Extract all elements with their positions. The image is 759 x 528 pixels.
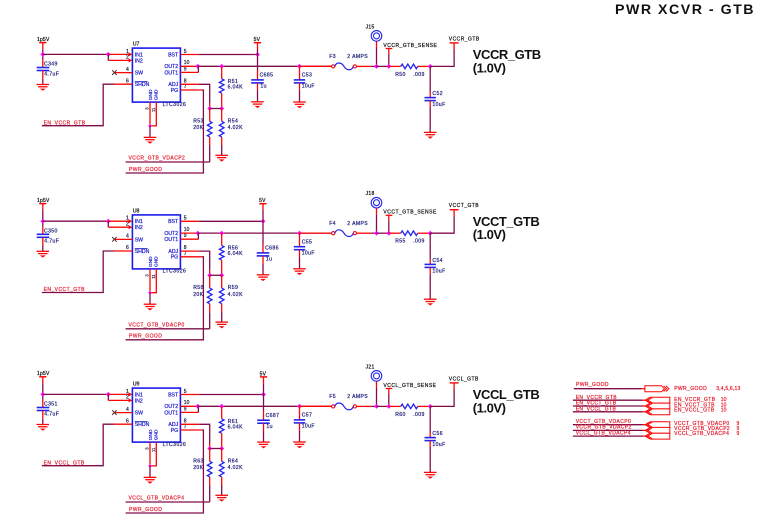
svg-text:LTC3026: LTC3026	[163, 269, 187, 275]
svg-text:C686: C686	[265, 246, 279, 252]
svg-text:GND: GND	[148, 89, 154, 100]
svg-text:F5: F5	[329, 394, 336, 400]
svg-text:9: 9	[184, 66, 187, 72]
svg-text:7: 7	[184, 84, 187, 90]
svg-text:C685: C685	[260, 73, 274, 79]
svg-text:C349: C349	[44, 62, 58, 68]
svg-text:6: 6	[126, 78, 129, 84]
svg-text:PWR_GOOD: PWR_GOOD	[129, 507, 162, 513]
svg-text:10: 10	[184, 227, 190, 233]
svg-text:(1.0V): (1.0V)	[473, 400, 506, 415]
svg-text:VCCL_GTB: VCCL_GTB	[449, 376, 479, 382]
svg-text:C54: C54	[432, 258, 443, 264]
svg-text:(1.0V): (1.0V)	[473, 60, 506, 75]
svg-text:VCCT_GTB: VCCT_GTB	[449, 203, 479, 209]
svg-text:4.7uF: 4.7uF	[44, 72, 59, 78]
svg-text:SHDN: SHDN	[135, 249, 150, 255]
svg-text:2: 2	[126, 55, 129, 61]
svg-text:2 AMPS: 2 AMPS	[347, 394, 368, 400]
svg-text:11: 11	[151, 274, 156, 279]
svg-text:VCCL_GTB_VDACP4: VCCL_GTB_VDACP4	[129, 496, 185, 502]
svg-text:4: 4	[126, 67, 129, 73]
svg-text:C687: C687	[266, 413, 280, 419]
svg-text:U9: U9	[133, 382, 140, 388]
svg-text:OUT2: OUT2	[164, 64, 178, 70]
svg-text:PWR_GOOD: PWR_GOOD	[576, 382, 609, 388]
svg-text:SW: SW	[135, 71, 143, 77]
svg-text:10: 10	[184, 400, 190, 406]
svg-text:OUT1: OUT1	[164, 237, 178, 243]
svg-text:2: 2	[126, 395, 129, 401]
svg-text:VCCL_GTB_VDACP4: VCCL_GTB_VDACP4	[674, 431, 729, 437]
svg-text:.009: .009	[413, 412, 425, 418]
svg-text:1u: 1u	[266, 424, 272, 430]
svg-text:PG: PG	[171, 255, 179, 261]
svg-text:GND: GND	[153, 429, 159, 440]
svg-text:J15: J15	[366, 24, 375, 30]
svg-text:GND: GND	[153, 256, 159, 267]
svg-text:PWR_GOOD: PWR_GOOD	[129, 167, 162, 173]
svg-text:R63: R63	[193, 458, 204, 464]
svg-text:10uF: 10uF	[302, 251, 315, 257]
svg-text:20K: 20K	[193, 465, 203, 471]
svg-text:10: 10	[721, 408, 727, 414]
svg-text:PWR_GOOD: PWR_GOOD	[674, 386, 707, 392]
svg-text:U7: U7	[133, 42, 140, 48]
svg-text:11: 11	[151, 447, 156, 452]
svg-text:9: 9	[184, 233, 187, 239]
svg-text:EN_VCCT_GTB: EN_VCCT_GTB	[44, 287, 86, 293]
svg-text:OUT1: OUT1	[164, 410, 178, 416]
svg-text:20K: 20K	[193, 292, 203, 298]
svg-text:10uF: 10uF	[432, 102, 445, 108]
svg-text:10uF: 10uF	[302, 424, 315, 430]
svg-text:9: 9	[737, 431, 740, 437]
svg-text:GND: GND	[148, 429, 154, 440]
svg-text:2: 2	[126, 222, 129, 228]
svg-text:EN_VCCL_GTB: EN_VCCL_GTB	[674, 408, 715, 414]
svg-text:.009: .009	[413, 239, 425, 245]
svg-text:R53: R53	[193, 118, 204, 124]
svg-text:R64: R64	[228, 458, 239, 464]
svg-text:BST: BST	[168, 52, 179, 58]
svg-text:4.02K: 4.02K	[228, 125, 244, 131]
svg-text:EN_VCCR_GTB: EN_VCCR_GTB	[44, 120, 86, 126]
svg-text:6.04K: 6.04K	[228, 251, 244, 257]
svg-text:PG: PG	[171, 428, 179, 434]
svg-text:BST: BST	[168, 392, 179, 398]
svg-text:OUT2: OUT2	[164, 231, 178, 237]
svg-text:C350: C350	[44, 228, 58, 234]
svg-text:PWR XCVR - GTB: PWR XCVR - GTB	[615, 2, 755, 18]
svg-text:PG: PG	[171, 88, 179, 94]
svg-text:R54: R54	[228, 118, 239, 124]
svg-text:6.04K: 6.04K	[228, 424, 244, 430]
svg-text:OUT2: OUT2	[164, 404, 178, 410]
svg-text:11: 11	[151, 107, 156, 112]
svg-text:7: 7	[184, 424, 187, 430]
svg-text:GND: GND	[153, 89, 159, 100]
svg-text:VCCR_GTB: VCCR_GTB	[449, 36, 480, 42]
svg-text:F4: F4	[329, 221, 336, 227]
svg-text:IN2: IN2	[135, 225, 143, 231]
svg-text:C52: C52	[432, 91, 443, 97]
svg-text:4: 4	[126, 407, 129, 413]
svg-text:SW: SW	[135, 237, 143, 243]
svg-text:U8: U8	[133, 208, 140, 214]
svg-text:SW: SW	[135, 411, 143, 417]
svg-text:VCCT_GTB_VDACP0: VCCT_GTB_VDACP0	[129, 323, 185, 329]
svg-text:.009: .009	[413, 72, 425, 78]
svg-text:C351: C351	[44, 402, 58, 408]
svg-text:EN_VCCL_GTB: EN_VCCL_GTB	[44, 460, 85, 466]
svg-text:C56: C56	[432, 431, 443, 437]
svg-text:2 AMPS: 2 AMPS	[347, 221, 368, 227]
svg-text:R50: R50	[395, 72, 406, 78]
svg-text:BST: BST	[168, 219, 179, 225]
svg-text:PWR_GOOD: PWR_GOOD	[129, 334, 162, 340]
svg-text:1u: 1u	[266, 257, 272, 263]
svg-text:LTC3026: LTC3026	[163, 102, 187, 108]
svg-text:C53: C53	[302, 73, 313, 79]
svg-text:IN2: IN2	[135, 58, 143, 64]
svg-text:F3: F3	[329, 54, 336, 60]
svg-text:J21: J21	[366, 364, 375, 370]
svg-text:7: 7	[184, 251, 187, 257]
svg-text:OUT1: OUT1	[164, 70, 178, 76]
svg-text:4.7uF: 4.7uF	[44, 412, 59, 418]
svg-text:4.7uF: 4.7uF	[44, 239, 59, 245]
svg-text:10: 10	[184, 60, 190, 66]
svg-text:10uF: 10uF	[302, 84, 315, 90]
svg-text:6: 6	[126, 245, 129, 251]
svg-text:(1.0V): (1.0V)	[473, 227, 506, 242]
svg-text:GND: GND	[148, 256, 154, 267]
svg-text:6: 6	[126, 418, 129, 424]
svg-text:2 AMPS: 2 AMPS	[347, 54, 368, 60]
svg-text:J18: J18	[366, 191, 375, 197]
svg-text:R60: R60	[395, 412, 406, 418]
svg-text:9: 9	[184, 406, 187, 412]
svg-text:6.04K: 6.04K	[228, 84, 244, 90]
svg-text:20K: 20K	[193, 125, 203, 131]
svg-text:1u: 1u	[260, 84, 266, 90]
svg-text:R59: R59	[228, 285, 239, 291]
svg-text:3,4,5,6,13: 3,4,5,6,13	[716, 386, 740, 392]
svg-text:SHDN: SHDN	[135, 422, 150, 428]
svg-text:R58: R58	[193, 285, 204, 291]
svg-text:C55: C55	[302, 239, 313, 245]
svg-text:VCCR_GTB_VDACP2: VCCR_GTB_VDACP2	[129, 156, 186, 162]
svg-text:IN2: IN2	[135, 398, 143, 404]
svg-text:4.02K: 4.02K	[228, 465, 244, 471]
svg-text:10uF: 10uF	[432, 269, 445, 275]
svg-text:4.02K: 4.02K	[228, 292, 244, 298]
svg-text:R55: R55	[395, 239, 406, 245]
svg-text:10uF: 10uF	[432, 442, 445, 448]
svg-text:C57: C57	[302, 413, 313, 419]
svg-text:4: 4	[126, 234, 129, 240]
svg-text:LTC3026: LTC3026	[163, 442, 187, 448]
svg-text:SHDN: SHDN	[135, 82, 150, 88]
